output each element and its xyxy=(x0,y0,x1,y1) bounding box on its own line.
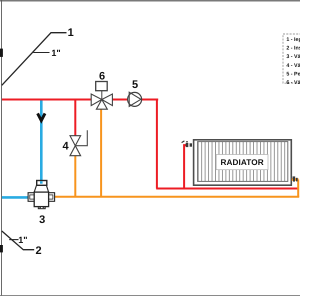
svg-text:3: 3 xyxy=(39,214,45,226)
svg-text:1 - Ieplūde: 1 - Ieplūde xyxy=(286,37,300,43)
svg-text:3 - Vārsts: 3 - Vārsts xyxy=(286,54,300,60)
svg-text:2: 2 xyxy=(36,245,42,257)
svg-text:5 - Perēja: 5 - Perēja xyxy=(286,71,300,77)
svg-text:6: 6 xyxy=(99,70,105,82)
svg-text:2 - Instalāc: 2 - Instalāc xyxy=(286,46,300,52)
svg-text:1: 1 xyxy=(68,27,74,39)
svg-text:1": 1" xyxy=(51,48,60,58)
svg-text:1": 1" xyxy=(18,235,27,245)
svg-text:RADIATOR: RADIATOR xyxy=(220,158,263,167)
svg-text:4: 4 xyxy=(62,141,69,153)
svg-text:4 - Vārsts: 4 - Vārsts xyxy=(286,63,300,69)
svg-text:5: 5 xyxy=(132,79,138,91)
svg-text:6 - Vārsts: 6 - Vārsts xyxy=(286,80,300,86)
